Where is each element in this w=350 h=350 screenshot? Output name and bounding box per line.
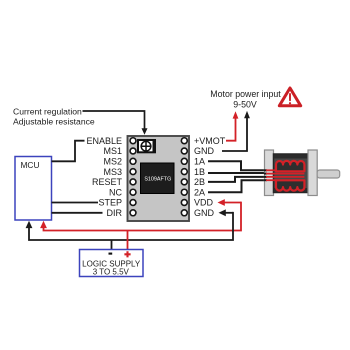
chip S109AFTG	[141, 163, 175, 194]
svg-text:NC: NC	[109, 187, 122, 197]
svg-text:STEP: STEP	[98, 198, 122, 208]
svg-text:GND: GND	[194, 208, 215, 218]
potentiometer	[137, 139, 156, 153]
wire black ground bus	[29, 212, 233, 240]
red coil lead stub 2	[266, 179, 276, 181]
svg-text:MS3: MS3	[103, 167, 122, 177]
svg-text:3 TO 5.5V: 3 TO 5.5V	[93, 267, 130, 276]
wire 1A to motor	[208, 161, 267, 170]
svg-text:MS2: MS2	[103, 157, 122, 167]
stepper motor body bottom dark band	[274, 188, 308, 192]
stepper motor shaft	[317, 170, 340, 178]
wire red VDD supply bus	[44, 202, 242, 231]
wire MCU to ENABLE	[52, 141, 85, 162]
MCU box	[15, 157, 52, 221]
svg-text:ENABLE: ENABLE	[86, 136, 122, 146]
wire logic supply plus to VDD bus	[127, 231, 129, 250]
wire GND black from ground bus with left arrow	[219, 209, 234, 216]
wire from label to potentiometer with down arrow	[83, 111, 148, 135]
stepper motor right flange	[308, 150, 317, 196]
motor coil bottom winding	[276, 180, 304, 190]
svg-text:2A: 2A	[194, 187, 205, 197]
black wire ends over flange	[264, 170, 267, 180]
right pin holes column	[181, 138, 187, 216]
svg-text:DIR: DIR	[107, 208, 123, 218]
red coil lead middle line 1	[266, 173, 304, 175]
warning triangle	[279, 88, 300, 106]
arrow red supply into MCU	[40, 221, 47, 228]
svg-text:1B: 1B	[194, 167, 205, 177]
wire logic supply minus to ground bus	[111, 240, 113, 250]
wire 2B to motor	[208, 177, 267, 182]
arrow black ground into MCU	[26, 221, 33, 228]
motor coil top winding	[276, 161, 304, 171]
wire 1B to motor	[208, 172, 267, 175]
svg-text:2B: 2B	[194, 177, 205, 187]
svg-text:9-50V: 9-50V	[233, 100, 257, 110]
svg-text:Adjustable resistance: Adjustable resistance	[13, 117, 95, 127]
wire MCU to STEP	[52, 202, 99, 204]
stepper motor body top dark band	[274, 155, 308, 159]
svg-text:RESET: RESET	[92, 177, 123, 187]
svg-text:GND: GND	[194, 146, 215, 156]
svg-text:VDD: VDD	[194, 198, 214, 208]
driver board	[128, 136, 190, 221]
red coil lead stub 1	[266, 169, 276, 171]
svg-text:MS1: MS1	[103, 146, 122, 156]
svg-text:MCU: MCU	[20, 160, 39, 170]
red coil lead middle line 2	[266, 176, 304, 178]
svg-text:S109AFTG: S109AFTG	[144, 177, 171, 183]
wire +VMOT red power input with up arrow	[226, 111, 238, 140]
svg-text:Current regulation: Current regulation	[13, 106, 82, 116]
label: Motor power input 9-50V	[210, 89, 281, 109]
left pin holes column	[130, 138, 136, 216]
svg-text:1A: 1A	[194, 157, 205, 167]
svg-text:+VMOT: +VMOT	[194, 136, 226, 146]
stepper motor left flange	[265, 150, 274, 196]
wire MCU to DIR	[52, 212, 103, 214]
wire 2A to motor	[208, 180, 267, 192]
stepper motor body	[274, 154, 309, 193]
svg-text:Motor power input: Motor power input	[210, 89, 281, 99]
wire VDD red from supply bus with left arrow	[218, 199, 242, 206]
label: Current regulation / Adjustable resistance	[13, 106, 95, 126]
LOGIC SUPPLY box	[80, 250, 144, 277]
wire GND black power input with up arrow	[222, 111, 250, 151]
